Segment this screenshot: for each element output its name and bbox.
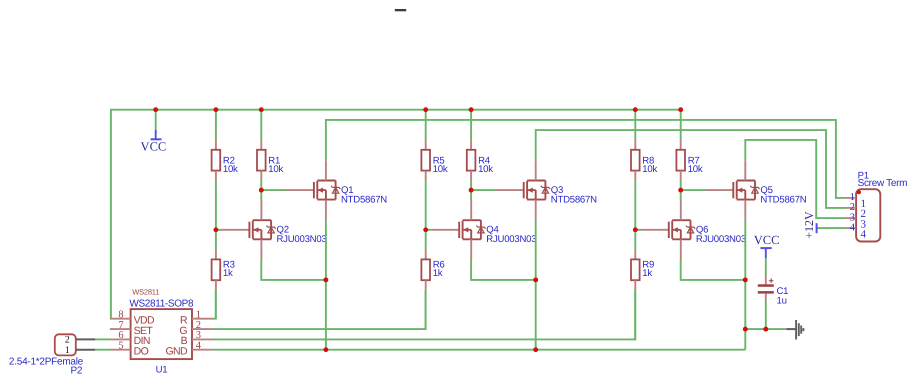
junction VCC/R8	[633, 107, 638, 112]
pin 2 (P2)	[65, 335, 96, 346]
wire Q6 drain to node	[680, 190, 682, 200]
junction VCC/R4	[469, 107, 474, 112]
junction VCC/R2	[213, 107, 218, 112]
wire net G (Q3 drain to P1 pin2)	[536, 130, 846, 208]
pin 4 GND (U1)	[165, 341, 212, 358]
wire R4 top	[470, 110, 472, 141]
resistor R5	[421, 140, 430, 180]
wire gate Q2	[216, 229, 222, 231]
wire net R (Q1 drain to P1 pin1)	[326, 120, 846, 198]
wire Q2 source down	[261, 260, 326, 280]
svg-text:10k: 10k	[478, 164, 493, 175]
resistor R8	[631, 140, 640, 180]
wire gate Q5	[681, 189, 706, 191]
svg-text:1k: 1k	[223, 268, 233, 279]
wire Q6 source down	[681, 260, 746, 280]
junction gate node Q5	[678, 188, 683, 193]
svg-text:VCC: VCC	[141, 140, 167, 154]
pin 3 (P1)	[845, 212, 866, 230]
wire gate Q6	[635, 229, 641, 231]
wire R5 bottom to gate node	[425, 180, 427, 230]
junction VCC/R7	[678, 107, 683, 112]
svg-text:NTD5867N: NTD5867N	[760, 194, 806, 205]
resistor R3	[212, 250, 221, 290]
transistor Q6	[641, 200, 695, 260]
wire gate Q3	[471, 189, 496, 191]
ground symbol (earth)	[786, 320, 803, 340]
svg-text:DO: DO	[134, 346, 149, 358]
wire R1 bottom to gate node	[260, 180, 262, 190]
svg-text:4: 4	[850, 222, 856, 233]
pin 1 (P2)	[65, 345, 96, 356]
wire R2 top	[215, 110, 217, 141]
transistor Q1	[286, 160, 340, 220]
wire R8 bottom to gate node	[634, 180, 636, 230]
pin 1 (P1)	[845, 192, 866, 210]
svg-text:U1: U1	[156, 365, 168, 376]
junction VCC/R5	[423, 107, 428, 112]
svg-text:10k: 10k	[223, 164, 238, 175]
pin 2 (P1)	[845, 202, 866, 220]
resistor R7	[676, 140, 685, 180]
capacitor C1	[758, 276, 774, 302]
pin 6 DIN (U1)	[110, 330, 150, 347]
wire net R to chip pin 1	[213, 290, 216, 319]
svg-text:4: 4	[196, 341, 202, 352]
wire net B row to chip pin 3	[213, 290, 636, 340]
wire R6 bottom	[425, 290, 427, 329]
wire gate Q4	[426, 229, 432, 231]
svg-text:WS2811: WS2811	[132, 287, 159, 296]
wire Q3 source down to GND	[535, 220, 537, 349]
pin 1 marker dot (P1)	[857, 190, 861, 194]
wire +12V to P1 pin4	[817, 227, 846, 229]
junction VCC/R1	[259, 107, 264, 112]
wire P2 pin1 to DO	[95, 349, 110, 351]
svg-text:1: 1	[65, 345, 70, 356]
svg-text:NTD5867N: NTD5867N	[341, 194, 387, 205]
resistor R4	[467, 140, 476, 180]
wire net G row to chip pin 2	[213, 290, 426, 329]
junction source/GND row ch1	[323, 347, 328, 352]
svg-text:5: 5	[118, 341, 123, 352]
wire VCC stub to symbol	[155, 110, 157, 130]
IC U1 WS2811-SOP8 body	[131, 309, 192, 359]
wire R1 top	[260, 110, 262, 141]
svg-text:10k: 10k	[688, 164, 703, 175]
wire gate Q1	[261, 189, 286, 191]
pin 8 VDD (U1)	[110, 310, 155, 327]
wire R4 bottom to gate node	[470, 180, 472, 190]
junction gate node Q6	[633, 227, 638, 232]
svg-text:10k: 10k	[268, 164, 283, 175]
svg-text:RJU003N03: RJU003N03	[696, 234, 746, 245]
resistor R1	[257, 140, 266, 180]
pin 7 SET (U1)	[110, 320, 154, 337]
transistor Q3	[496, 160, 550, 220]
svg-text:RJU003N03: RJU003N03	[486, 234, 536, 245]
svg-text:1: 1	[196, 310, 201, 321]
svg-text:2: 2	[65, 335, 70, 346]
transistor Q4	[432, 200, 486, 260]
wire net GND row	[213, 349, 746, 351]
junction source/GND row ch2	[533, 347, 538, 352]
svg-text:8: 8	[118, 310, 123, 321]
wire R3 top	[215, 230, 217, 250]
wire R3 bottom	[215, 290, 217, 319]
junction gate node Q2	[213, 227, 218, 232]
svg-text:GND: GND	[165, 346, 188, 358]
connector P2 body	[55, 334, 76, 355]
resistor R6	[421, 250, 430, 290]
wire R9 bottom	[634, 290, 636, 340]
connector P1 body	[856, 189, 880, 241]
pin 2 G (U1)	[179, 320, 212, 337]
pin 1 R (U1)	[180, 310, 213, 327]
power symbol VCC (near C1)	[754, 233, 780, 258]
junction sources Q3/Q4	[533, 277, 538, 282]
svg-text:WS2811-SOP8: WS2811-SOP8	[129, 299, 194, 310]
svg-text:1u: 1u	[777, 296, 787, 307]
wire R8 top	[634, 110, 636, 141]
wire C1 to ground branch	[765, 302, 767, 329]
svg-text:NTD5867N: NTD5867N	[551, 194, 597, 205]
wire Q2 drain to node	[260, 190, 262, 200]
wire R7 bottom to gate node	[680, 180, 682, 190]
svg-text:10k: 10k	[642, 164, 657, 175]
transistor Q5	[706, 160, 760, 220]
svg-text:1k: 1k	[433, 268, 443, 279]
svg-text:P2: P2	[70, 365, 82, 376]
resistor R9	[631, 250, 640, 290]
svg-text:VCC: VCC	[754, 233, 780, 247]
wire VCC rail	[111, 110, 681, 319]
svg-text:Screw Term: Screw Term	[858, 178, 908, 189]
pin 3 B (U1)	[181, 330, 213, 347]
wire R2 bottom to gate node	[215, 180, 217, 230]
wire Q4 source down	[471, 260, 536, 280]
resistor R2	[212, 140, 221, 180]
junction sources Q5/Q6	[743, 277, 748, 282]
wire Q4 drain to node	[470, 190, 472, 200]
wire ground branch	[745, 328, 786, 330]
svg-text:4: 4	[861, 228, 867, 240]
wire R7 top	[680, 110, 682, 141]
junction gate node Q3	[469, 188, 474, 193]
junction gate node Q1	[259, 188, 264, 193]
wire R6 top	[425, 230, 427, 250]
power symbol VCC (top left)	[141, 130, 167, 154]
svg-text:RJU003N03: RJU003N03	[277, 234, 327, 245]
wire Q5 source down to GND	[744, 220, 746, 349]
wire P2 pin2 to DIN	[95, 338, 110, 340]
junction VCC/symbol	[153, 107, 158, 112]
wire VCC to C1	[765, 258, 767, 276]
sheet marker dash	[395, 9, 406, 11]
junction gate node Q4	[423, 227, 428, 232]
wire Q1 source down to GND	[325, 220, 327, 349]
wire net B (Q5 drain to P1 pin3)	[745, 140, 845, 218]
wire R9 top	[634, 230, 636, 250]
junction sources Q1/Q2	[323, 277, 328, 282]
pin 5 DO (U1)	[110, 341, 149, 358]
power symbol +12V	[802, 211, 816, 239]
junction ground branch/source	[743, 327, 748, 332]
wire R5 top	[425, 110, 427, 141]
transistor Q2	[222, 200, 276, 260]
svg-text:10k: 10k	[433, 164, 448, 175]
svg-text:1k: 1k	[642, 268, 652, 279]
pin 4 (P1)	[845, 222, 866, 240]
junction C1/ground branch	[763, 327, 768, 332]
svg-text:+12V: +12V	[802, 211, 816, 239]
